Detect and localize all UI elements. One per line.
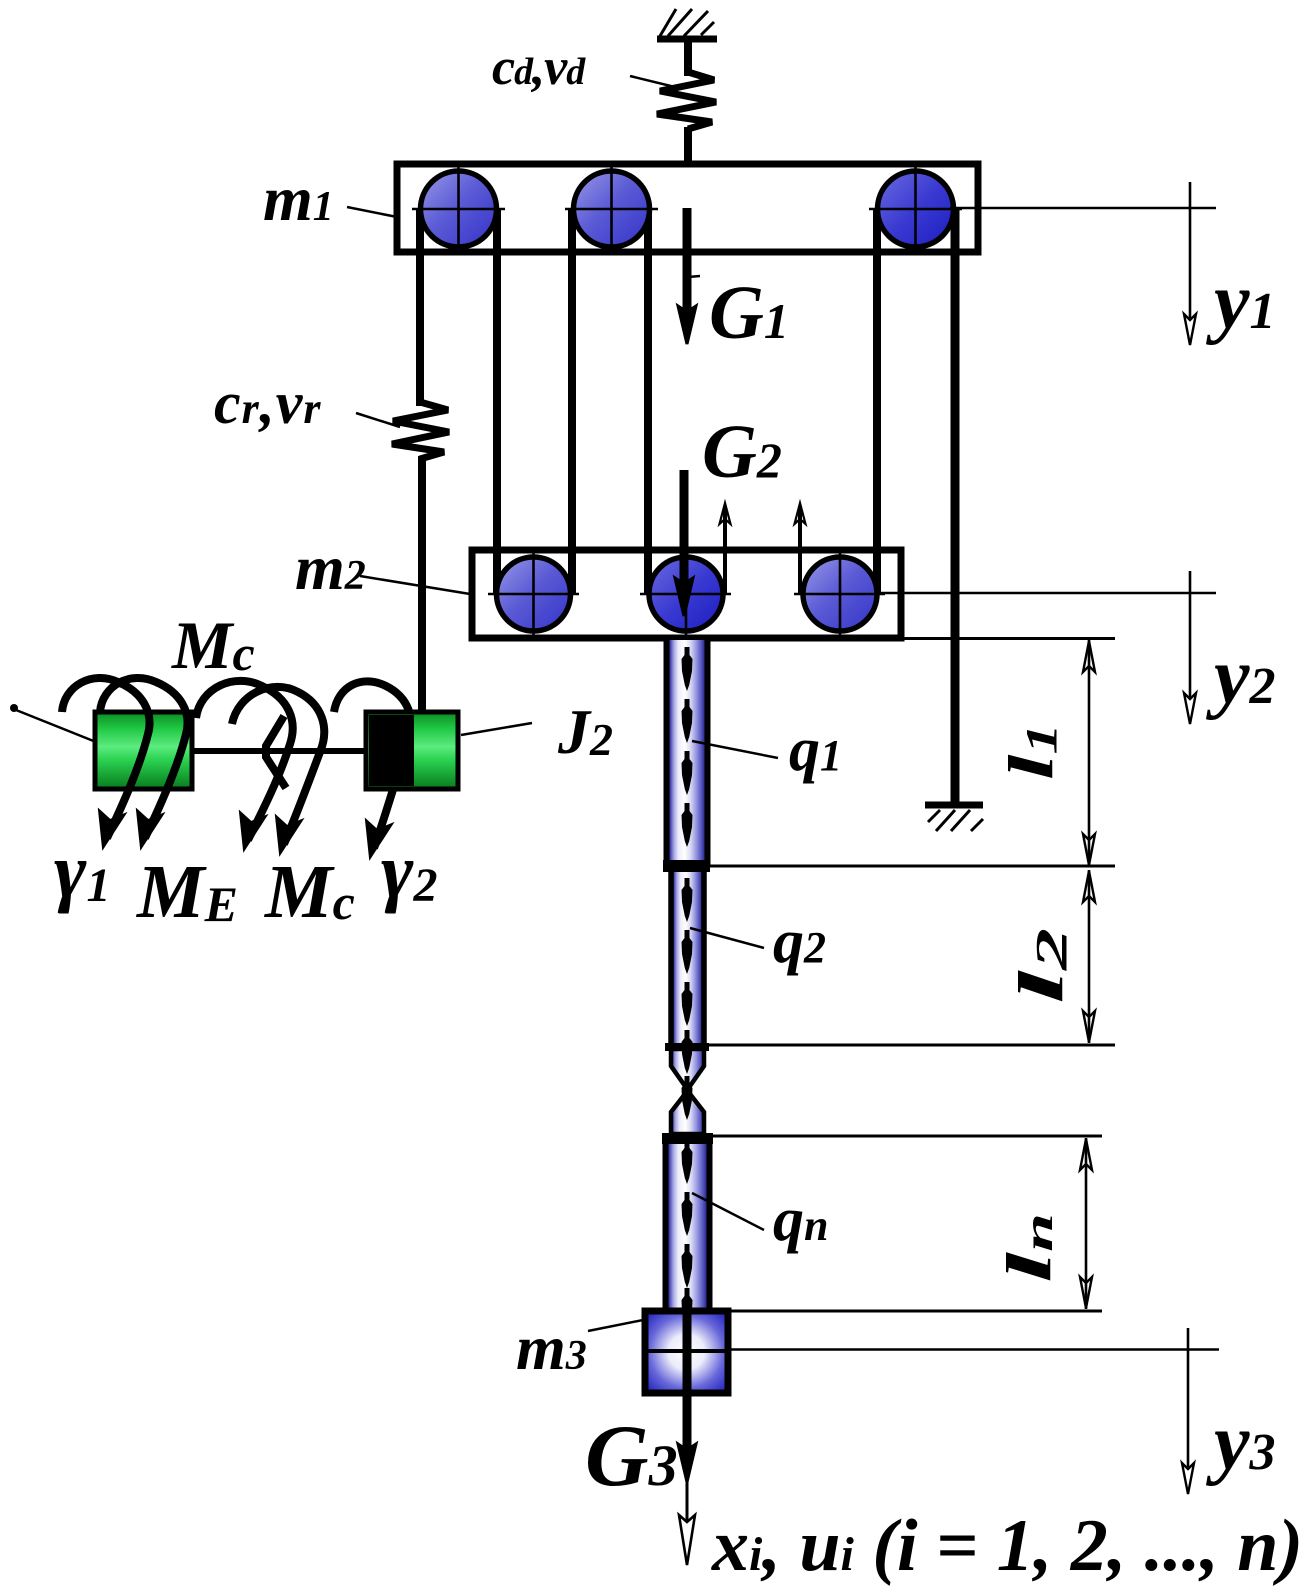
label y2 — [1205, 633, 1276, 721]
force arrow G2 — [675, 470, 693, 616]
force arrow G1 — [678, 208, 696, 344]
label cd,vd — [492, 39, 586, 96]
wire spring cd to m1 — [684, 127, 692, 165]
mass m1 block — [397, 164, 978, 252]
rotation arrow loop A on motor — [62, 678, 150, 848]
cap between q1 and q2 — [663, 860, 710, 872]
displacement y1 reference line — [950, 207, 1216, 210]
leader m3 — [588, 1319, 648, 1331]
wire ceiling to spring cd — [684, 39, 692, 76]
leader m2 — [360, 576, 470, 594]
label l1 — [995, 723, 1066, 780]
drum J2 — [366, 712, 458, 789]
mass m2 block — [472, 550, 901, 638]
motor cylinder J1 — [95, 712, 192, 789]
label y3 — [1205, 1399, 1276, 1487]
leader q1 — [692, 741, 778, 758]
displacement y3 arrow — [1182, 1328, 1194, 1494]
pulley P2 in m1 — [565, 163, 658, 255]
dimension ln — [1080, 1138, 1092, 1309]
label G1 — [709, 271, 789, 355]
label gamma2 — [381, 827, 437, 914]
ground anchor hatching — [928, 810, 983, 831]
dimension l2 — [1083, 870, 1095, 1043]
leader qn — [692, 1193, 764, 1230]
rotation arrow loop B on motor — [100, 678, 188, 848]
displacement y3 reference line — [728, 1348, 1219, 1351]
displacement y1 arrow — [1184, 182, 1196, 345]
coupling — [266, 716, 286, 788]
rod break upper nub — [671, 1049, 704, 1086]
shaft — [192, 748, 366, 754]
leader m1 — [347, 207, 397, 217]
boundary line q1/q2 — [710, 865, 1115, 868]
cap below q2 — [665, 1043, 709, 1051]
displacement y2 reference line — [875, 592, 1216, 595]
rotation arrow loop C at coupling — [196, 681, 293, 850]
boundary line below q2 — [708, 1044, 1115, 1047]
label Mc top — [171, 607, 255, 683]
spring cd,vd — [657, 72, 716, 129]
dimension l1 — [1083, 640, 1095, 866]
label l2 — [1005, 928, 1076, 1004]
rod segment qn — [666, 1144, 710, 1311]
label m3 — [516, 1312, 587, 1383]
rope from pulley P2 left down to m2 pulley P4 right — [568, 209, 576, 594]
rotation arc gamma2 behind drum — [334, 681, 411, 858]
spring cr,vr — [392, 402, 449, 459]
tension arrow up right — [795, 503, 806, 594]
leader dot left — [10, 704, 18, 712]
label q2 — [773, 908, 826, 976]
label ME — [136, 850, 238, 934]
axis arrow xi — [679, 1482, 695, 1565]
rope from spring cr down to drum J2 — [418, 456, 426, 716]
pulley P4 in m2 — [488, 549, 579, 639]
label qn — [773, 1186, 828, 1254]
leader line to motor — [16, 710, 96, 742]
mass m3 block — [645, 1311, 728, 1393]
pulley P5 in m2 — [640, 549, 731, 639]
tick on G1 arrow — [688, 276, 700, 277]
rope from pulley P1 left down to spring cr — [416, 209, 424, 406]
label J2 — [557, 696, 613, 767]
svg-text:xi, ui (i = 1, 2, ..., n): xi, ui (i = 1, 2, ..., n) — [711, 1505, 1303, 1587]
cap above qn — [662, 1133, 713, 1144]
leader cr,vr — [356, 413, 400, 427]
label cr,vr — [214, 370, 322, 436]
label gamma1 — [54, 827, 110, 914]
leader cd,vd — [630, 76, 679, 88]
tension arrow up left — [720, 503, 731, 594]
rod break lower nub — [671, 1094, 704, 1134]
label xi ui — [711, 1505, 1303, 1587]
rod segment q1 — [667, 640, 708, 866]
ceiling anchor hatching — [660, 9, 714, 36]
rotation arrow loop D at coupling — [232, 687, 324, 854]
distributed load arrows in rod — [682, 647, 693, 1332]
force arrow G3 — [678, 1314, 696, 1482]
rope from pulley P3 right down to ground anchor — [951, 209, 960, 803]
boundary line m2 bottom extension — [710, 637, 1115, 640]
pulley P6 in m2 — [794, 549, 885, 639]
label q1 — [789, 716, 842, 784]
label m1 — [263, 163, 334, 234]
boundary line bottom of qn — [728, 1310, 1102, 1313]
label ln — [993, 1213, 1064, 1283]
label m2 — [295, 532, 366, 603]
pulley P3 in m1 — [869, 163, 962, 255]
rope from pulley P2 right down to m2 pulley P5 left — [644, 209, 652, 594]
ground anchor bar — [925, 802, 983, 809]
boundary line top of qn — [713, 1135, 1102, 1138]
pulley P1 in m1 — [412, 163, 505, 255]
ceiling bar — [657, 36, 717, 43]
rope from pulley P1 right down to m2 pulley P4 left — [493, 209, 501, 594]
leader J2 — [461, 723, 532, 735]
label y1 — [1205, 258, 1276, 346]
label G2 — [702, 410, 782, 494]
rod segment q2 — [671, 872, 704, 1047]
label G3 — [585, 1408, 678, 1505]
leader q2 — [690, 928, 764, 948]
displacement y2 arrow — [1184, 571, 1196, 724]
label Mc bottom — [264, 850, 355, 934]
rope from pulley P3 left down to m2 pulley P6 right — [873, 209, 881, 594]
